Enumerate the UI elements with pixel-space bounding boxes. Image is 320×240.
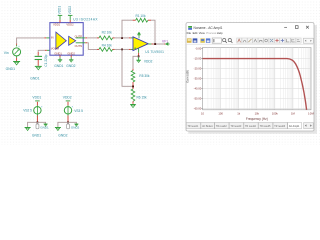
wire feedback right side down to output bbox=[151, 20, 155, 44]
svg-text:GND1: GND1 bbox=[32, 134, 41, 138]
svg-text:10k: 10k bbox=[255, 111, 260, 115]
svg-text:TR result2: TR result2 bbox=[216, 125, 227, 128]
svg-text:R5 30k: R5 30k bbox=[139, 74, 150, 78]
svg-text:Vin: Vin bbox=[4, 51, 9, 55]
resistor R1 bbox=[133, 18, 151, 22]
wire OUTP to R2 bbox=[76, 37, 97, 39]
svg-text:GND2: GND2 bbox=[67, 52, 75, 56]
junction below U1 bbox=[138, 55, 140, 57]
svg-text:U3 ISO224AX: U3 ISO224AX bbox=[73, 18, 98, 22]
pin VDD1 jumper above box bbox=[58, 15, 63, 22]
small ground right of VS2 bbox=[44, 124, 48, 126]
svg-text:GND1: GND1 bbox=[40, 125, 49, 129]
power arrow above U1 bbox=[137, 32, 141, 39]
op-amp triangle (big) inside U3 bbox=[56, 32, 66, 49]
svg-text:C1 220p: C1 220p bbox=[44, 54, 48, 66]
resistor R6 bbox=[131, 87, 135, 104]
svg-text:GND1: GND1 bbox=[30, 77, 40, 81]
svg-text:TR result6: TR result6 bbox=[274, 125, 285, 128]
wire VS3 right branch bbox=[68, 122, 76, 124]
resistor R5 bbox=[131, 69, 135, 86]
svg-text:Process: Process bbox=[206, 31, 217, 35]
wire Vin top to IN pin bbox=[17, 38, 56, 44]
svg-text:AC Bode1: AC Bode1 bbox=[202, 125, 213, 128]
VDD2 jumper below U1 bbox=[136, 57, 141, 62]
wire VS2 right branch bbox=[37, 122, 45, 124]
ground pin shape under VS3 bbox=[67, 122, 70, 129]
ground left of VS2 bbox=[25, 128, 31, 131]
wire OUTN down-jog to R4 bbox=[76, 43, 97, 50]
wire R4 to non-inverting input bbox=[115, 48, 134, 50]
capacitor C1 bbox=[35, 52, 42, 66]
wire VS3 left branch bbox=[58, 122, 68, 127]
svg-text:-10.00: -10.00 bbox=[194, 57, 202, 61]
pin GND2 jumper below box bbox=[69, 55, 74, 62]
svg-text:GND2: GND2 bbox=[71, 125, 80, 129]
ground under R6 bbox=[130, 105, 136, 108]
svg-text:VDD2: VDD2 bbox=[68, 6, 72, 15]
svg-text:R4 10k: R4 10k bbox=[102, 43, 113, 47]
svg-text:+: + bbox=[18, 45, 20, 48]
svg-text:VDD1: VDD1 bbox=[53, 23, 61, 27]
svg-text:TR result4: TR result4 bbox=[245, 125, 256, 128]
svg-text:GND1: GND1 bbox=[54, 64, 63, 68]
svg-text:VS2 5: VS2 5 bbox=[23, 108, 32, 112]
svg-text:-0.00: -0.00 bbox=[195, 47, 202, 51]
svg-text:GND2: GND2 bbox=[58, 134, 67, 138]
wire U1 V- pin down bbox=[138, 48, 140, 55]
svg-text:VDD1: VDD1 bbox=[32, 95, 41, 99]
title bar icon bbox=[188, 26, 192, 30]
tab row bbox=[186, 122, 313, 128]
plot frame bbox=[203, 48, 312, 110]
wire VS2 left branch bbox=[28, 122, 38, 127]
svg-text:R2 10k: R2 10k bbox=[102, 30, 113, 34]
svg-text:VS3 5: VS3 5 bbox=[74, 109, 83, 113]
ground left of VS3 bbox=[55, 128, 61, 131]
svg-text:U1 TLV9001: U1 TLV9001 bbox=[145, 50, 164, 54]
ground under C1 bbox=[35, 66, 42, 69]
toolbar icons bbox=[187, 38, 314, 43]
svg-text:Edit: Edit bbox=[193, 31, 198, 35]
window buttons bbox=[284, 26, 309, 29]
svg-text:Help: Help bbox=[217, 31, 223, 35]
svg-text:GND1: GND1 bbox=[54, 52, 62, 56]
svg-text:-40.00: -40.00 bbox=[194, 86, 202, 90]
svg-text:R1 10k: R1 10k bbox=[135, 14, 146, 18]
toolbar background bbox=[186, 37, 313, 45]
svg-text:-20.00: -20.00 bbox=[194, 67, 202, 71]
svg-text:-30.00: -30.00 bbox=[194, 77, 202, 81]
svg-text:OUTN: OUTN bbox=[75, 44, 83, 48]
voltage source VS3 bbox=[64, 101, 73, 122]
svg-text:10: 10 bbox=[201, 111, 204, 115]
svg-text:10M: 10M bbox=[308, 111, 314, 115]
resistor R4 bbox=[97, 48, 115, 52]
junction on non-inverting node bbox=[121, 49, 123, 51]
svg-text:AC Ampl1: AC Ampl1 bbox=[289, 125, 300, 128]
svg-text:VDD2: VDD2 bbox=[66, 23, 74, 27]
svg-text:+: + bbox=[41, 105, 43, 108]
junction at output bbox=[154, 43, 156, 45]
svg-text:Noname - AC Ampl1: Noname - AC Ampl1 bbox=[194, 26, 223, 30]
y axis tick labels bbox=[194, 47, 202, 111]
svg-text:IN: IN bbox=[51, 36, 54, 40]
svg-text:100: 100 bbox=[218, 111, 223, 115]
wire VOCM pin to capacitor C1 bbox=[38, 50, 54, 52]
junction divider midpoint bbox=[132, 86, 134, 88]
svg-text:TR result5: TR result5 bbox=[260, 125, 271, 128]
voltage source Vin bbox=[13, 45, 21, 56]
pin GND1 jumper below box bbox=[58, 55, 63, 62]
wire Vin bottom to ground bbox=[16, 44, 18, 62]
svg-text:VDD2: VDD2 bbox=[63, 95, 72, 99]
isolation amplifier U3 box bbox=[50, 23, 83, 56]
ground under Vin bbox=[13, 62, 20, 65]
svg-text:Gain (dB): Gain (dB) bbox=[185, 70, 189, 83]
junction under VS3 bbox=[67, 121, 69, 123]
svg-text:View: View bbox=[199, 31, 206, 35]
junction on inverting input node bbox=[121, 37, 123, 39]
voltage source VS2 bbox=[34, 101, 43, 122]
svg-text:Frequency (Hz): Frequency (Hz) bbox=[246, 117, 268, 121]
pin VDD2 jumper above box bbox=[68, 15, 73, 22]
menu bar bbox=[187, 31, 223, 35]
gain curve bbox=[203, 59, 307, 110]
window frame bbox=[186, 23, 317, 134]
small ground right of VS3 bbox=[74, 124, 78, 126]
wire junction to divider top bbox=[133, 56, 139, 68]
x axis tick labels bbox=[201, 111, 314, 115]
svg-text:TR result3: TR result3 bbox=[231, 125, 242, 128]
ground pin shape under VS2 bbox=[36, 122, 39, 129]
svg-text:TR result1: TR result1 bbox=[188, 125, 199, 128]
wire U1 output bbox=[148, 43, 165, 45]
voltage pin VF1 bbox=[165, 42, 170, 46]
plot horizontal gridlines bbox=[203, 59, 311, 109]
svg-text:VOCM: VOCM bbox=[51, 46, 60, 50]
svg-text:VF1: VF1 bbox=[162, 39, 168, 43]
svg-text:R6 15k: R6 15k bbox=[137, 95, 148, 99]
svg-text:VDD2: VDD2 bbox=[144, 60, 153, 64]
svg-text:-60.00: -60.00 bbox=[194, 106, 202, 110]
op-amp triangle (small) inside U3 bbox=[69, 36, 76, 45]
wire feedback up and across bbox=[122, 20, 133, 38]
svg-text:GND1: GND1 bbox=[6, 67, 16, 71]
y axis ticks bbox=[202, 49, 203, 109]
svg-text:100k: 100k bbox=[272, 111, 278, 115]
svg-text:GND2: GND2 bbox=[66, 64, 75, 68]
wire bias from R4 node down to divider bbox=[122, 49, 133, 86]
junction under VS2 bbox=[36, 121, 38, 123]
plot decade gridlines bbox=[221, 48, 293, 110]
resistor R2 bbox=[97, 36, 115, 40]
svg-text:VDD1: VDD1 bbox=[58, 6, 62, 15]
op-amp U1 bbox=[133, 37, 148, 51]
svg-text:-50.00: -50.00 bbox=[194, 96, 202, 100]
wire R2 to inverting input bbox=[115, 37, 134, 39]
svg-text:File: File bbox=[187, 31, 192, 35]
plot minor gridlines bbox=[208, 48, 310, 110]
